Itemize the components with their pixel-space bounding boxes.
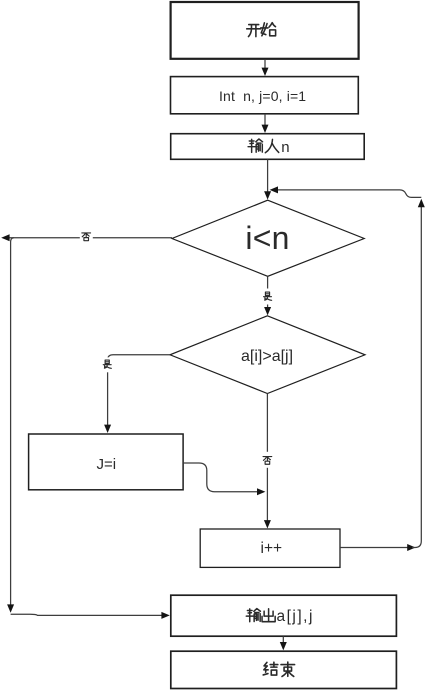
arrowhead down into J=i box (104, 425, 111, 433)
wire diamond1 bottom to diamond2 (yes branch) (267, 276, 269, 308)
wire from J=i right edge joining no-branch line (183, 463, 257, 492)
process box J=i (29, 434, 184, 490)
wire right vertical feedback up (412, 206, 421, 548)
decision diamond i&lt;n (172, 200, 364, 276)
wire box2 to box3 (264, 114, 266, 125)
label 是 (yes) (103, 360, 111, 368)
arrowhead up at top of feedback (418, 199, 425, 207)
arrowhead left (270, 186, 278, 193)
label 否 (no) (263, 457, 272, 465)
arrowhead down at left bottom corner (7, 604, 14, 612)
process box i++ (200, 529, 340, 567)
wire i++ to right feedback (340, 547, 408, 549)
wire box3 to diamond1 (267, 159, 269, 192)
svg-text:a[i]>a[j]: a[i]>a[j] (241, 348, 293, 365)
wire yes branch from diamond2 left (108, 355, 170, 426)
label 输入n (248, 139, 279, 153)
arrowhead down into end box (280, 642, 287, 650)
arrowhead down into diamond1 (264, 191, 271, 199)
arrowhead right before corner (407, 544, 415, 551)
wire diamond2 bottom to i++ (no branch) (266, 394, 268, 521)
process box Int n, j=0, i=1 (171, 77, 359, 114)
label background 是 (262, 289, 275, 305)
arrowhead down (262, 125, 269, 133)
process box 输出a[j],j (output) (171, 595, 397, 636)
svg-text:i++: i++ (261, 540, 283, 557)
process box 结束 (end) (171, 651, 397, 688)
wire feedback top horizontal into diamond1 entry (277, 190, 421, 198)
svg-text:J=i: J=i (97, 456, 117, 473)
arrowhead down into diamond2 (264, 307, 271, 315)
wire bottom horizontal into output box (11, 614, 162, 615)
label 结束 (263, 662, 294, 676)
svg-text:a[j],j: a[j],j (277, 608, 314, 625)
svg-text:Int n, j=0, i=1: Int n, j=0, i=1 (219, 88, 306, 104)
label 开始 (247, 23, 276, 37)
svg-text:i<n: i<n (245, 220, 289, 256)
svg-text:n: n (281, 139, 289, 156)
arrowhead right joining vertical line (257, 488, 265, 495)
arrowhead right into output box (161, 612, 169, 619)
arrowhead down (262, 68, 269, 76)
label background 是 (101, 357, 114, 372)
wire no branch left from diamond1 (9, 237, 172, 239)
label background 否 (261, 452, 274, 468)
process box 开始 (start) (171, 2, 359, 59)
decision diamond a[i]&gt;a[j] (170, 316, 365, 394)
wire output box to end box (282, 636, 284, 642)
arrowhead down into i++ box (264, 520, 271, 528)
label background 否 (80, 229, 93, 245)
wire box1 to box2 (264, 59, 266, 68)
label 输出a[j],j (246, 609, 275, 622)
arrowhead left overshoot (1, 234, 9, 241)
label 否 (no) (82, 233, 91, 241)
wire left vertical down (11, 238, 14, 606)
label 是 (yes) (264, 292, 272, 300)
process box 输入n (input n) (171, 134, 365, 160)
